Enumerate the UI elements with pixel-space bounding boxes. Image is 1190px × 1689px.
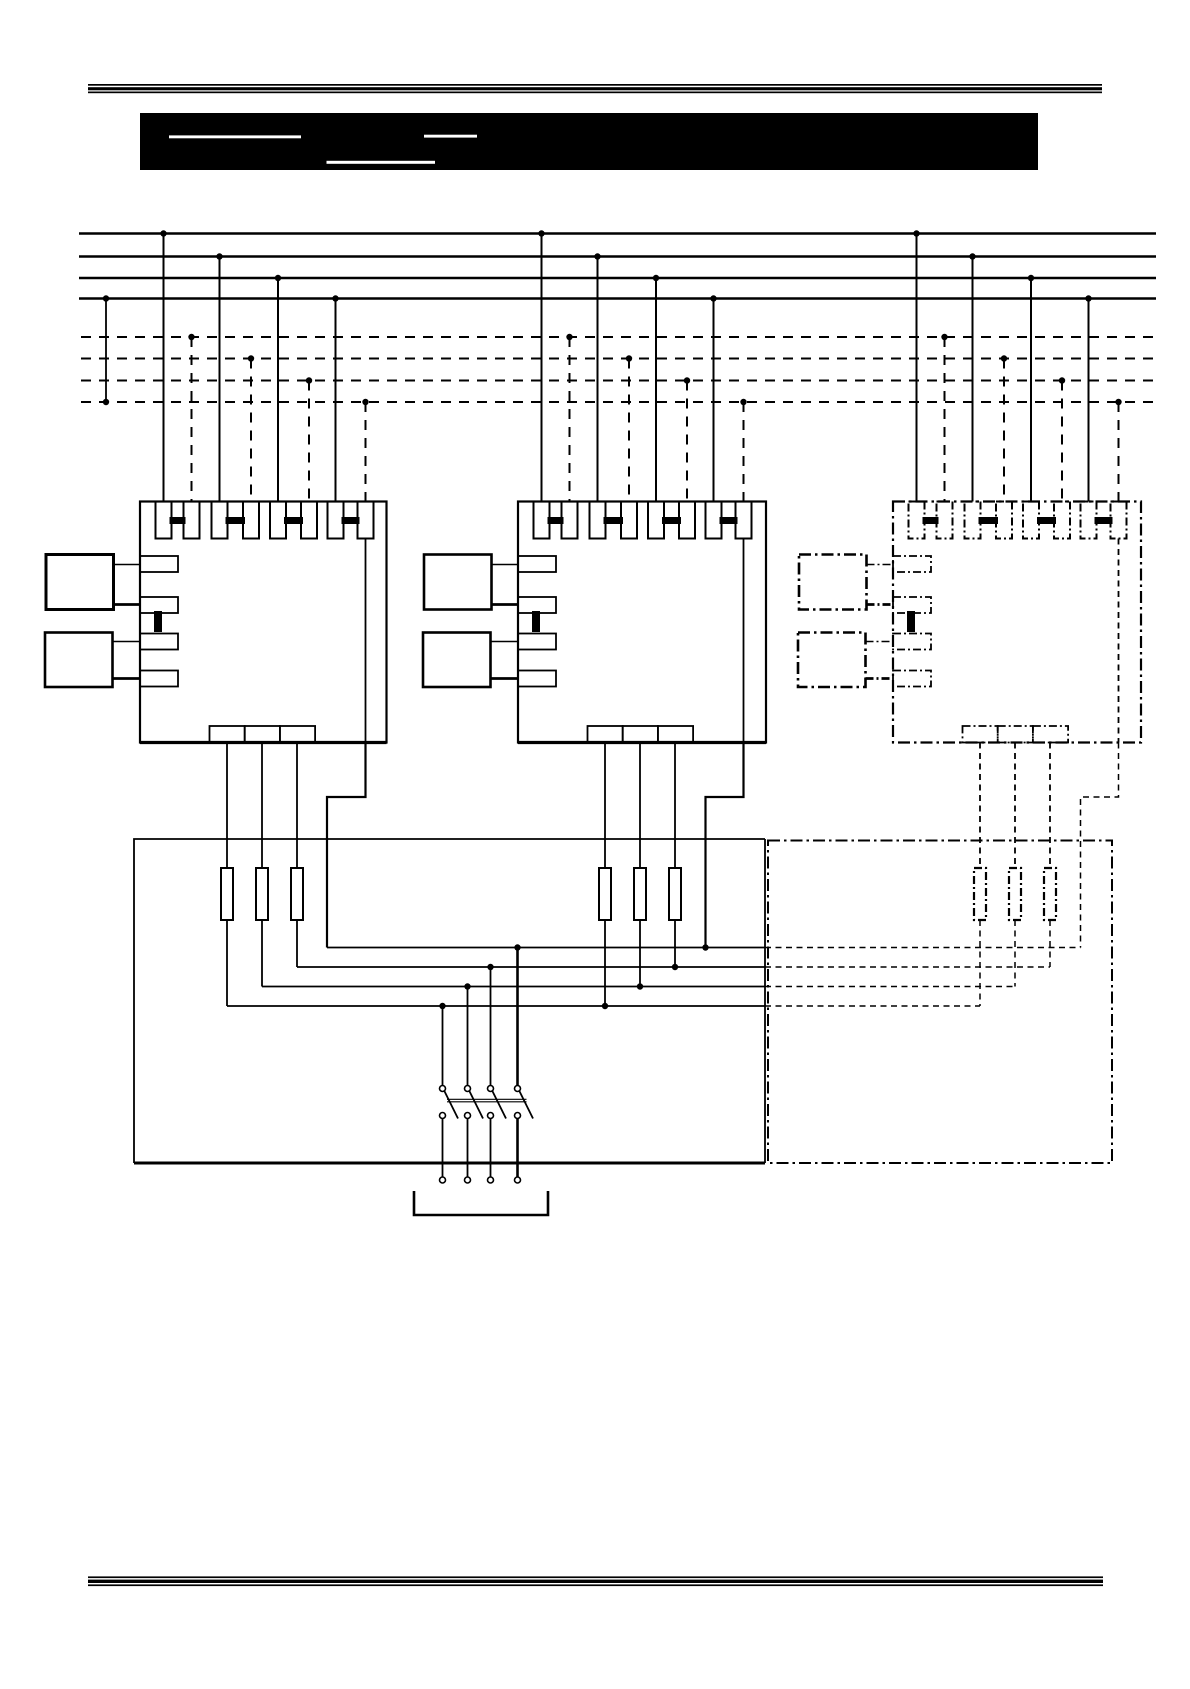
power bus line L2 (79, 255, 1156, 258)
switch mechanical linkage (double line) (447, 1099, 527, 1102)
wire: control drop 2 to unit 3 (dashed) (1001, 355, 1007, 501)
wire: power drop L2 to unit 2 (594, 253, 600, 501)
unit 1 outline box (140, 502, 387, 743)
unit 3 left terminal 3 (893, 634, 931, 650)
wire: power drop L3 to unit 3 (1028, 275, 1034, 502)
unit 3 outline box (893, 502, 1141, 743)
unit 2 internal through wire (743, 539, 745, 743)
wire: power drop L2 to unit 1 (216, 253, 222, 501)
wire: power drop L3 to unit 2 (653, 275, 659, 502)
unit 2 bottom output terminal 3 (658, 726, 693, 743)
unit 2 outline box (518, 502, 766, 743)
wire: control drop 1 to unit 1 (dashed) (188, 334, 194, 502)
wire: control drop 3 to unit 2 (dashed) (684, 377, 690, 501)
unit 3 bottom output terminal 3 (1033, 726, 1068, 743)
unit 2 input terminal pair 1 (534, 502, 578, 539)
unit 2 left terminal 2 (518, 597, 556, 613)
wire: control drop 3 to unit 1 (dashed) (306, 377, 312, 501)
wire: power drop L3 to unit 1 (275, 275, 281, 502)
collector line h4 (solid part) (227, 1003, 765, 1009)
unit 1 bottom output terminal 2 (245, 726, 280, 743)
unit 1 sensor box A (46, 555, 140, 610)
bottom border rule (88, 1576, 1103, 1586)
wire: control drop 4 to unit 2 (dashed) (740, 399, 746, 502)
unit 3 left terminal 4 (893, 671, 931, 687)
unit 1 input terminal pair 4 (328, 502, 374, 539)
unit 3 left terminal 2 (893, 597, 931, 613)
switch pole 3 (488, 967, 507, 1183)
control bus line 4 (dashed) (81, 401, 1156, 403)
unit 3 bottom output terminal 2 (998, 726, 1033, 743)
wire: control drop 1 to unit 3 (dashed) (941, 334, 947, 502)
control bus line 3 (dashed) (81, 380, 1156, 382)
unit 2 left terminal 1 (518, 556, 556, 572)
power bus line L3 (79, 277, 1156, 280)
unit 3 left terminal link bar (907, 611, 915, 632)
unit 1 left terminal 4 (140, 671, 178, 687)
collector line h2 (solid part) (297, 964, 765, 970)
wire: control drop 2 to unit 1 (dashed) (248, 355, 254, 501)
unit 1 bottom output terminal 3 (280, 726, 315, 743)
wire: phantom R32 down to dashed collector (1014, 920, 1016, 987)
unit 1 input terminal pair 3 (270, 502, 317, 539)
switch pole 2 (465, 987, 484, 1184)
unit 3 internal through wire (1118, 539, 1120, 743)
switch pole 4 (515, 948, 534, 1184)
collector line h3 (solid part) (262, 983, 765, 989)
unit 3 input terminal pair 3 (1023, 502, 1070, 539)
wire: R22 down to collector (with junction) (637, 920, 643, 990)
control bus line 2 (dashed) (81, 358, 1156, 360)
resistor R22 (634, 743, 646, 921)
collector line h1 dashed extension (765, 947, 1081, 949)
switch pole 1 (440, 1006, 459, 1183)
wire: control drop 3 to unit 3 (dashed) (1059, 377, 1065, 501)
wire: control drop 4 to unit 3 (dashed) (1115, 399, 1121, 502)
resistor R33 (1044, 743, 1056, 921)
unit 2 input terminal pair 4 (706, 502, 752, 539)
unit 1 input terminal pair 2 (212, 502, 260, 539)
unit 2 bottom output terminal 1 (588, 726, 623, 743)
wire: power drop L1 to unit 2 (538, 230, 544, 501)
phantom enclosure box (future unit, dash-dot) (768, 841, 1112, 1164)
resistor R31 (974, 743, 986, 921)
wire: unit 2 through-wire jog down to h1 (junction) (702, 743, 743, 951)
link wire between bus N and dashed bus 4 (103, 295, 109, 405)
unit 1 sensor box B (45, 633, 140, 688)
wire: control drop 4 to unit 1 (dashed) (362, 399, 368, 502)
unit 2 input terminal pair 3 (648, 502, 695, 539)
collector line h1 (solid part) (327, 944, 765, 950)
unit 1 left terminal 2 (140, 597, 178, 613)
unit 1 left terminal link bar (154, 611, 162, 632)
wire: R11 to collector h4 (226, 920, 228, 1006)
unit 3 input terminal pair 4 (1081, 502, 1127, 539)
unit 1 bottom output terminal 1 (210, 726, 245, 743)
resistor R21 (599, 743, 611, 921)
resistor R12 (256, 743, 268, 921)
unit 3 bottom output terminal 1 (963, 726, 998, 743)
resistor R32 (1009, 743, 1021, 921)
wire: R12 to collector h3 (261, 920, 263, 987)
unit 1 input terminal pair 1 (156, 502, 200, 539)
wire: R13 to collector h2 (296, 920, 298, 967)
unit 3 sensor box B (798, 633, 893, 688)
unit 3 left terminal 1 (893, 556, 931, 572)
unit 2 left terminal 4 (518, 671, 556, 687)
unit 3 input terminal pair 1 (909, 502, 953, 539)
top border rule (88, 84, 1102, 93)
wire: control drop 1 to unit 2 (dashed) (566, 334, 572, 502)
wire: unit 1 through-wire jog down to h1 (327, 743, 366, 948)
output grouping bracket (414, 1191, 548, 1215)
collector line h2 dashed extension (765, 966, 1050, 968)
wire: R21 down to collector (with junction) (602, 920, 608, 1009)
wire: control drop 2 to unit 2 (dashed) (626, 355, 632, 501)
unit 1 internal through wire (365, 539, 367, 743)
wire: power drop N to unit 1 (332, 295, 338, 501)
main resistor/switch enclosure box (134, 839, 765, 1163)
wire: phantom R33 down to dashed collector (1049, 920, 1051, 967)
title banner (redacted black block) (140, 113, 1038, 170)
wire: power drop L1 to unit 3 (913, 230, 919, 501)
unit 2 left terminal link bar (532, 611, 540, 632)
unit 1 bottom edge (thick) (140, 741, 387, 744)
collector line h3 dashed extension (765, 986, 1015, 988)
wire: unit 3 phantom through-wire jog down to dashed h1 (1081, 743, 1119, 948)
collector line h4 dashed extension (765, 1005, 980, 1007)
wire: phantom R31 down to dashed collector (979, 920, 981, 1006)
wire: power drop L2 to unit 3 (969, 253, 975, 501)
unit 2 left terminal 3 (518, 634, 556, 650)
unit 2 bottom output terminal 2 (623, 726, 658, 743)
power bus line N (79, 297, 1156, 300)
resistor R23 (669, 743, 681, 921)
unit 1 left terminal 1 (140, 556, 178, 572)
control bus line 1 (dashed) (81, 336, 1156, 338)
power bus line L1 (79, 232, 1156, 235)
wire: R23 down to collector (with junction) (672, 920, 678, 970)
unit 1 left terminal 3 (140, 634, 178, 650)
wire: power drop L1 to unit 1 (160, 230, 166, 501)
unit 2 bottom edge (thick) (518, 741, 766, 744)
unit 2 input terminal pair 2 (590, 502, 638, 539)
unit 2 sensor box A (424, 555, 518, 610)
unit 3 sensor box A (799, 555, 893, 610)
unit 2 sensor box B (423, 633, 518, 688)
wire: power drop N to unit 2 (710, 295, 716, 501)
wire: power drop N to unit 3 (1085, 295, 1091, 501)
resistor R13 (291, 743, 303, 921)
unit 3 input terminal pair 2 (965, 502, 1013, 539)
resistor R11 (221, 743, 233, 921)
